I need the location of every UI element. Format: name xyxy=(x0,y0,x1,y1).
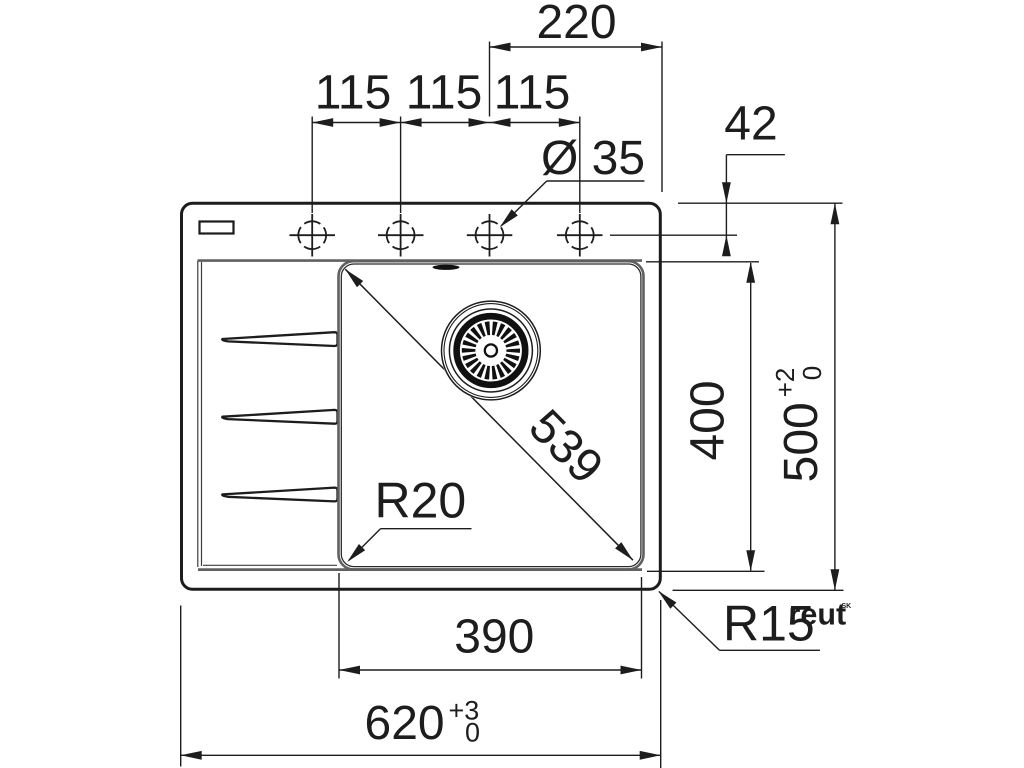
dimension 390 line xyxy=(339,669,642,671)
dimension 115 chain: extension lines xyxy=(312,117,580,214)
faucet hole 1 xyxy=(290,214,336,257)
label 539 (rotated along diagonal) xyxy=(519,400,613,494)
svg-text:Ø 35: Ø 35 xyxy=(541,132,645,185)
svg-text:reut: reut xyxy=(789,598,847,632)
bowl inner rounded rect (dark) xyxy=(341,264,641,567)
svg-text:0: 0 xyxy=(797,366,827,380)
drainboard/sink inner bottom rim line xyxy=(198,568,642,571)
faucet hole 4 xyxy=(557,214,603,257)
drainboard rib 3 xyxy=(222,488,337,502)
dimension 42 bracket xyxy=(726,154,785,156)
dimension 400 line xyxy=(750,263,752,571)
svg-text:390: 390 xyxy=(454,611,534,664)
dimension 220: extension lines xyxy=(489,42,491,117)
drainboard left double line xyxy=(197,261,199,567)
label 500 +2/0 (rotated) xyxy=(770,366,828,483)
dimension 220 line xyxy=(490,46,663,48)
svg-text:42: 42 xyxy=(724,98,777,151)
dimension 620 line xyxy=(181,754,661,756)
svg-text:SK: SK xyxy=(842,603,852,610)
diagonal dimension line 539 xyxy=(345,269,633,560)
overflow slot xyxy=(433,265,460,270)
label 400 (rotated) xyxy=(682,380,735,460)
faucet hole 2 xyxy=(378,214,424,257)
faucet hole 3 xyxy=(467,214,513,257)
bowl top reference line (right) xyxy=(646,261,759,263)
svg-text:+2: +2 xyxy=(770,368,800,398)
bowl bottom reference line (right) xyxy=(647,570,765,572)
svg-text:115: 115 xyxy=(315,67,392,120)
drain strainer xyxy=(440,300,541,401)
drainboard bottom thin line xyxy=(203,564,337,566)
hole centerline reference (right) xyxy=(610,234,737,236)
svg-text:0: 0 xyxy=(465,718,480,748)
logo rectangle xyxy=(200,222,234,234)
svg-text:115: 115 xyxy=(406,67,483,120)
dimension 500 line xyxy=(834,203,836,590)
bowl outer rounded rect (gray) xyxy=(339,261,644,569)
drainboard top rim line xyxy=(198,259,643,262)
svg-text:220: 220 xyxy=(536,0,616,49)
dimension 620 extension lines xyxy=(180,606,182,767)
svg-text:R20: R20 xyxy=(375,473,467,529)
top edge reference line (right) xyxy=(678,202,843,204)
svg-text:115: 115 xyxy=(494,67,571,120)
dimension 115 line xyxy=(312,122,580,124)
svg-text:400: 400 xyxy=(682,380,735,460)
svg-text:500: 500 xyxy=(775,402,828,482)
dimension 390 extension lines xyxy=(338,573,340,679)
svg-text:620: 620 xyxy=(365,697,445,750)
sink bottom reference line (right) xyxy=(673,589,844,591)
sink outer outline xyxy=(182,203,661,589)
drainboard rib 2 xyxy=(222,410,337,424)
drainboard rib 1 xyxy=(222,332,337,346)
